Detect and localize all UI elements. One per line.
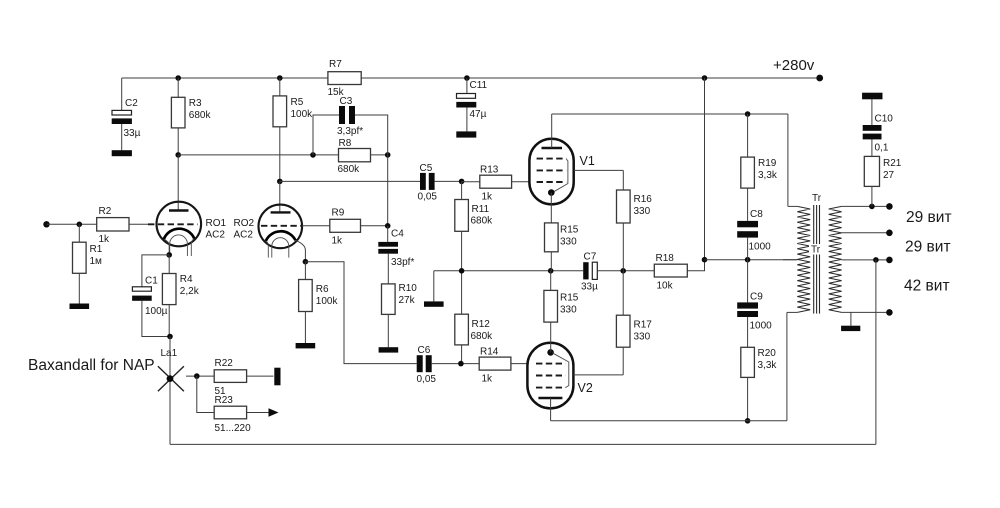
wire R9 right <box>361 225 388 227</box>
pentode V2 envelope <box>527 343 573 409</box>
wire secondary tap1 <box>842 232 890 234</box>
wire C11 top <box>466 78 468 93</box>
svg-text:100µ: 100µ <box>145 306 168 317</box>
svg-text:RO2: RO2 <box>234 218 255 229</box>
svg-text:AC2: AC2 <box>234 230 254 241</box>
wire C2 to rail <box>121 78 123 110</box>
svg-text:C11: C11 <box>470 80 488 91</box>
node rail-R3 <box>175 75 181 81</box>
resistor R6 <box>304 262 306 280</box>
svg-text:330: 330 <box>634 206 651 217</box>
svg-text:Baxandall for NAP: Baxandall for NAP <box>28 357 155 374</box>
RO1 cathode tail right <box>191 239 194 256</box>
svg-text:R7: R7 <box>329 59 342 70</box>
wire R5node to C5 <box>280 180 420 182</box>
wire RO1 anode lead <box>177 155 179 211</box>
node R5 bottom <box>277 179 283 185</box>
svg-text:330: 330 <box>560 305 577 316</box>
wire C3 branch up-left <box>313 115 339 155</box>
triode RO1 envelope <box>157 202 202 247</box>
V1 anode lead <box>551 114 553 148</box>
resistor R4 <box>168 255 170 274</box>
node R22-R23 <box>194 373 200 379</box>
svg-text:R16: R16 <box>634 194 653 205</box>
resistor R11 <box>461 181 463 199</box>
wire RO2 grid to R9 <box>302 225 330 227</box>
wire down to La1 <box>169 337 171 445</box>
RO2 grid dashed <box>261 225 301 227</box>
resistor R3 <box>177 78 179 97</box>
node R20 bottom <box>745 418 751 424</box>
svg-text:1000: 1000 <box>750 321 773 332</box>
capacitor C7 <box>583 262 588 279</box>
svg-text:R18: R18 <box>656 253 675 264</box>
wire mid-rail <box>434 270 583 272</box>
node R3-R8 <box>175 152 181 158</box>
node C6-R12 <box>458 361 464 367</box>
svg-text:33pf*: 33pf* <box>391 257 414 268</box>
node B+ feed <box>702 257 708 263</box>
wire feedback vertical <box>875 260 877 445</box>
node sec top terminal <box>886 203 893 210</box>
capacitor C1 <box>132 287 151 291</box>
resistor R7 <box>328 72 361 85</box>
svg-text:R9: R9 <box>332 208 345 219</box>
node La1 <box>167 375 174 382</box>
svg-text:RO1: RO1 <box>206 218 227 229</box>
node sec tap1 terminal <box>886 230 893 237</box>
svg-text:330: 330 <box>634 332 651 343</box>
wire input <box>47 223 97 225</box>
svg-text:51...220: 51...220 <box>215 423 252 434</box>
node input terminal <box>43 221 49 227</box>
svg-text:La1: La1 <box>161 348 178 359</box>
svg-text:R10: R10 <box>399 283 418 294</box>
svg-text:R6: R6 <box>316 284 329 295</box>
label Tr mid <box>809 244 825 255</box>
svg-text:1k: 1k <box>482 374 494 385</box>
wire C2 bottom <box>121 124 123 150</box>
node RO2 cathode <box>303 259 309 265</box>
wire secondary tap2 <box>842 259 890 261</box>
svg-text:C6: C6 <box>418 345 431 356</box>
ground R6 <box>296 343 316 348</box>
RO1 anode plate <box>169 209 189 211</box>
V1 grid2 dashed <box>537 169 567 171</box>
capacitor C4 <box>378 242 398 247</box>
wire R21 top <box>871 139 873 156</box>
capacitor C5 <box>420 173 426 190</box>
RO2 cathode arc <box>266 231 296 241</box>
svg-text:27: 27 <box>883 170 895 181</box>
capacitor C6 <box>417 355 423 372</box>
svg-text:AC2: AC2 <box>206 230 226 241</box>
V1 grid1 dashed <box>537 181 567 183</box>
resistor R17 <box>622 271 624 315</box>
svg-text:R12: R12 <box>472 319 491 330</box>
svg-text:C9: C9 <box>750 292 763 303</box>
resistor R16 <box>622 170 624 190</box>
capacitor C2 <box>112 110 132 115</box>
resistor R2 <box>97 218 129 231</box>
wire R21 bottom <box>871 186 873 206</box>
resistor R12 <box>461 271 463 314</box>
svg-text:V2: V2 <box>578 381 593 395</box>
V2 anode plate <box>538 397 562 399</box>
node RO1 cathode <box>166 252 172 258</box>
V2 cathode node <box>547 349 554 356</box>
V1 cathode node <box>548 189 555 196</box>
V1 anode plate <box>542 147 563 149</box>
wire secondary bottom <box>842 311 890 313</box>
svg-text:Tr: Tr <box>811 245 821 256</box>
node rail-B+feed <box>702 75 708 81</box>
resistor R9 <box>330 219 361 232</box>
svg-text:C5: C5 <box>420 163 433 174</box>
svg-text:R5: R5 <box>291 97 304 108</box>
wire R23 branch <box>197 376 214 412</box>
ground C2 <box>112 150 132 156</box>
svg-text:1000: 1000 <box>749 242 772 253</box>
RO2 anode plate <box>271 211 291 213</box>
resistor R15 upper <box>550 193 552 223</box>
svg-text:680k: 680k <box>471 331 494 342</box>
RO2 heater loop <box>272 238 289 258</box>
wire V2 g2 <box>573 374 623 376</box>
wire C6 right <box>432 363 480 365</box>
transformer core <box>813 205 815 314</box>
terminal bar R22 <box>274 368 280 386</box>
X mark line2 <box>158 366 184 391</box>
node anode row R19 <box>745 111 751 117</box>
wire C1 bottom <box>142 301 170 337</box>
wire R23 right <box>247 412 269 414</box>
svg-text:C3: C3 <box>340 96 353 107</box>
V2 g3-cathode tie <box>552 353 569 388</box>
resistor R18 <box>654 264 687 277</box>
resistor R23 <box>214 406 246 419</box>
svg-text:33µ: 33µ <box>581 282 598 293</box>
svg-text:R23: R23 <box>215 395 234 406</box>
capacitor C10 <box>863 134 882 140</box>
V2 grid3 dashed <box>536 387 566 389</box>
wire cathode to C6 <box>305 262 416 364</box>
svg-text:V1: V1 <box>580 154 595 168</box>
node +280v terminal <box>816 75 823 82</box>
wire C4 top <box>387 226 389 242</box>
svg-text:33µ: 33µ <box>124 128 141 139</box>
svg-text:C2: C2 <box>125 98 138 109</box>
wire R2 to RO1 grid <box>129 223 148 225</box>
transformer Tr secondary coil <box>829 206 842 312</box>
ground mid-rail <box>424 301 444 306</box>
svg-text:3,3pf*: 3,3pf* <box>337 126 363 137</box>
node rail-C11 <box>464 75 470 81</box>
terminal bar C10 <box>862 93 882 100</box>
svg-text:0,1: 0,1 <box>875 143 889 154</box>
svg-text:1k: 1k <box>332 236 344 247</box>
node C3 left <box>310 152 316 158</box>
capacitor C8 <box>737 221 758 227</box>
svg-text:27k: 27k <box>399 295 416 306</box>
svg-text:R15: R15 <box>560 293 579 304</box>
svg-text:R3: R3 <box>189 98 202 109</box>
V1 grid3 dashed <box>537 158 567 160</box>
svg-text:R19: R19 <box>758 158 777 169</box>
wire anode row to primary bottom <box>786 312 788 420</box>
svg-text:330: 330 <box>560 237 577 248</box>
primary centre tap <box>783 259 797 261</box>
resistor R22 <box>214 370 246 383</box>
primary top lead <box>788 205 797 207</box>
svg-text:680k: 680k <box>189 110 212 121</box>
resistor R8 <box>339 149 371 162</box>
wire C5 right <box>435 180 462 182</box>
svg-text:680k: 680k <box>471 216 494 227</box>
svg-text:C7: C7 <box>584 252 597 263</box>
capacitor C9 <box>737 302 758 308</box>
resistor R21 <box>864 156 879 186</box>
svg-text:100k: 100k <box>291 109 314 120</box>
svg-text:R13: R13 <box>480 165 499 176</box>
wire R8 right <box>371 154 388 156</box>
wire X to R22 <box>186 375 214 377</box>
svg-text:+280v: +280v <box>773 57 815 74</box>
wire secondary top <box>842 205 890 207</box>
resistor R20 <box>747 317 749 347</box>
svg-text:10k: 10k <box>657 281 674 292</box>
svg-text:3,3k: 3,3k <box>758 360 778 371</box>
svg-text:3,3k: 3,3k <box>758 170 778 181</box>
wire C1 branch <box>142 255 169 287</box>
wire R18 right <box>687 260 704 271</box>
transformer Tr primary coil <box>797 206 810 312</box>
wire feedback node down <box>387 155 389 226</box>
wire R8 row left <box>178 154 338 156</box>
ground C11 <box>456 131 476 137</box>
wire RO2 anode <box>279 181 281 211</box>
svg-text:2,2k: 2,2k <box>180 286 200 297</box>
svg-text:47µ: 47µ <box>470 109 487 120</box>
resistor R15 lower <box>550 271 552 291</box>
svg-text:R1: R1 <box>90 244 103 255</box>
svg-text:0,05: 0,05 <box>417 374 437 385</box>
wire B+ to primary centre <box>705 259 798 261</box>
ground R10 <box>379 347 399 352</box>
wire V1 anode row <box>552 113 788 115</box>
wire C11 bottom <box>466 108 468 132</box>
resistor R14 <box>479 357 511 370</box>
wire V1 g2 <box>574 169 624 171</box>
node rail-R16R17 <box>620 268 626 274</box>
RO1 cathode lead <box>164 239 169 255</box>
resistor R1 <box>78 224 80 242</box>
capacitor C3 <box>339 106 345 124</box>
svg-text:42 вит: 42 вит <box>904 278 950 295</box>
RO1 grid dashed <box>148 223 198 225</box>
svg-text:R8: R8 <box>339 138 352 149</box>
svg-text:R14: R14 <box>480 347 499 358</box>
svg-text:R4: R4 <box>180 274 193 285</box>
node cathode net bottom <box>167 334 173 340</box>
wire +280v top rail right segment <box>361 77 820 79</box>
wire anode row to primary top <box>787 114 789 206</box>
svg-text:100k: 100k <box>316 296 339 307</box>
X mark line1 <box>158 366 184 391</box>
RO1 cathode arc <box>164 229 195 240</box>
svg-text:Tr: Tr <box>812 193 822 204</box>
triode RO2 envelope <box>259 205 303 249</box>
RO2 cathode lead <box>296 240 306 261</box>
wire C9 top <box>747 260 749 303</box>
ground R1 <box>70 304 90 310</box>
resistor R13 <box>462 181 480 183</box>
svg-text:C1: C1 <box>145 276 158 287</box>
svg-text:680k: 680k <box>338 164 361 175</box>
node rail-R15 <box>548 268 554 274</box>
wire C8 bottom <box>747 238 749 260</box>
svg-text:29 вит: 29 вит <box>905 239 951 256</box>
svg-text:R11: R11 <box>472 204 490 215</box>
ground secondary <box>850 312 852 325</box>
svg-text:R15: R15 <box>560 225 579 236</box>
RO1 heater loop <box>170 235 188 256</box>
node C8C9 <box>745 257 751 263</box>
svg-text:1k: 1k <box>482 192 494 203</box>
RO2 cathode tail left <box>266 241 269 258</box>
resistor R5 <box>279 78 281 96</box>
node C5-R11 <box>459 179 465 185</box>
wire feedback bottom <box>170 443 876 445</box>
V1 g3-cathode tie <box>553 159 568 193</box>
arrow R23 <box>269 408 279 416</box>
wire mid-rail right of C7 <box>597 270 654 272</box>
wire C3 branch right <box>355 115 388 155</box>
node R9-C4 <box>385 223 391 229</box>
svg-text:C10: C10 <box>875 114 894 125</box>
svg-text:1м: 1м <box>90 256 103 267</box>
node rail-R5 <box>277 75 283 81</box>
wire R22 right <box>247 375 274 377</box>
svg-text:R21: R21 <box>883 158 902 169</box>
wire mid-rail ground stem <box>433 271 435 302</box>
svg-text:C8: C8 <box>750 209 763 220</box>
V2 anode lead <box>550 398 552 421</box>
node sec tap2 fb <box>873 257 879 263</box>
svg-text:29 вит: 29 вит <box>906 209 952 226</box>
wire V2 anode row <box>551 420 787 422</box>
resistor R19 <box>747 114 749 157</box>
wire B+ feed down <box>704 78 706 271</box>
node sec top R21 <box>869 204 875 210</box>
node R8 right <box>385 152 391 158</box>
svg-text:0,05: 0,05 <box>418 192 438 203</box>
node input-R1 <box>77 222 83 228</box>
primary bottom lead <box>787 311 797 313</box>
node sec tap2 terminal <box>886 257 893 264</box>
pentode V1 envelope <box>529 139 573 205</box>
capacitor C11 <box>457 94 476 99</box>
wire +280v top rail left segment <box>122 77 328 79</box>
wire C10 top <box>871 99 873 125</box>
svg-text:R2: R2 <box>99 206 112 217</box>
resistor R10 <box>387 254 389 284</box>
svg-text:R22: R22 <box>215 358 234 369</box>
svg-text:R17: R17 <box>634 320 653 331</box>
svg-text:C4: C4 <box>391 229 404 240</box>
V2 grid2 dashed <box>536 375 566 377</box>
node sec bottom terminal <box>886 309 893 316</box>
node rail-R11R12 <box>459 268 465 274</box>
svg-text:R20: R20 <box>758 348 777 359</box>
V2 grid1 dashed <box>536 363 566 365</box>
